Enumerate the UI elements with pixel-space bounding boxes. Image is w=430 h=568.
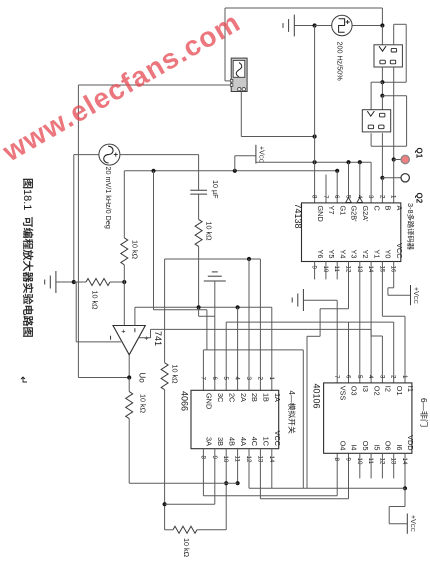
wire 4C down [248, 449, 250, 489]
wire C1 to R2 [198, 194, 200, 219]
svg-text:40106: 40106 [312, 384, 322, 409]
svg-text:1: 1 [390, 195, 397, 199]
ground VSS [302, 289, 304, 311]
svg-text:741: 741 [153, 331, 163, 346]
svg-text:4066: 4066 [180, 391, 190, 411]
junction Q1 [392, 157, 396, 161]
wire Y0 right [382, 315, 405, 317]
wire to Uo node [78, 377, 127, 379]
wire to 2B [248, 259, 250, 390]
oscilloscope XSC1 [230, 58, 247, 91]
wire rail to +in [110, 281, 124, 283]
svg-text:+: + [121, 327, 126, 336]
svg-text:I1: I1 [406, 386, 415, 392]
svg-text:Y2: Y2 [361, 250, 370, 259]
wire rail [74, 281, 86, 283]
wire to G2B pin [348, 162, 350, 197]
svg-text:Y7: Y7 [327, 206, 336, 215]
label 3-8 decoder [406, 203, 415, 250]
svg-text:G2B': G2B' [350, 206, 359, 223]
wire to clock source [315, 25, 332, 27]
svg-text:1C: 1C [262, 437, 271, 446]
svg-text:Y0: Y0 [384, 250, 393, 259]
wire Y3 left2 [307, 335, 320, 337]
junction -in 2A [236, 305, 240, 309]
wire pin9 stub [314, 262, 316, 280]
wire 40106 pin12 stub [381, 453, 383, 478]
svg-text:10 µF: 10 µF [211, 180, 220, 199]
svg-text:2: 2 [256, 377, 263, 381]
svg-text:4—: 4— [287, 391, 296, 403]
wire pin16 jog2 [387, 288, 389, 296]
junction Q2 [380, 176, 384, 180]
IC U1 74138 [302, 203, 401, 262]
wire Y1 to I2 [381, 336, 383, 383]
wire top corner down [381, 8, 383, 26]
svg-text:VCC: VCC [395, 243, 404, 258]
wire 40106 pin10 stub [359, 453, 361, 478]
svg-text:GND: GND [316, 206, 325, 222]
wire scope B left [78, 84, 231, 86]
wire ladder down [164, 259, 166, 363]
wire +Vcc line down to R4 [123, 171, 125, 238]
wire left down to scope A [224, 8, 226, 81]
wire to +Vcc bottom [404, 488, 406, 506]
resistor R2 10k [195, 219, 202, 246]
wire under J2 [371, 145, 407, 147]
clock source V1 200Hz [332, 15, 352, 35]
wire left down to rail [73, 155, 75, 282]
wire Y2 to I3 [359, 262, 361, 383]
wire 1C down [259, 449, 261, 499]
connector Q1 [401, 155, 409, 163]
svg-text:O2: O2 [372, 386, 381, 396]
junction 4A [236, 481, 240, 485]
svg-text:9: 9 [345, 458, 352, 462]
wire gnd bus [256, 161, 371, 163]
ground left [55, 271, 57, 293]
svg-text:4: 4 [234, 377, 241, 381]
wire pin16 down [393, 262, 395, 288]
svg-text:8: 8 [333, 458, 340, 462]
wire Y3 down [348, 262, 350, 309]
junction bias-vcc [233, 169, 237, 173]
wire jog d [388, 507, 390, 524]
wire R2 down to inv node [198, 246, 200, 307]
wire to G2A pin [359, 162, 361, 197]
wire pin10 stub [325, 262, 327, 280]
svg-text:+VCC: +VCC [409, 515, 416, 532]
svg-text:3C: 3C [216, 393, 225, 402]
wire to 2A [237, 307, 239, 390]
wire to bar [389, 523, 407, 525]
svg-text:74138: 74138 [293, 204, 303, 229]
wire V+ stub [139, 337, 151, 339]
wire +Vcc stub h [235, 155, 256, 157]
junction source-switch [380, 23, 384, 27]
wire 153 down [153, 171, 155, 310]
wire V+ up [150, 329, 152, 337]
wire O1 to 2C [226, 321, 394, 323]
op-amp U2 741 [113, 326, 145, 355]
svg-text:+VCC: +VCC [258, 146, 265, 163]
junction Uo [127, 375, 131, 379]
wire gnd stem [56, 281, 74, 283]
svg-text:1: 1 [401, 375, 408, 379]
wire to switch J1 [381, 26, 383, 45]
wire -in up [134, 307, 136, 325]
caption [21, 179, 33, 337]
svg-text:6: 6 [211, 377, 218, 381]
wire 153 right [154, 309, 207, 311]
wire 2C down [225, 322, 227, 390]
wire gnd to 3C [214, 281, 216, 390]
wire bottom right [197, 529, 226, 531]
wire R6 down [128, 419, 130, 484]
wire to O2 [370, 329, 372, 383]
ground top [293, 15, 295, 37]
wire -in net [135, 306, 272, 308]
svg-text:O1: O1 [395, 386, 404, 396]
wire node B to J2 [381, 96, 383, 110]
svg-text:5: 5 [345, 195, 352, 199]
capacitor C1 10uF [190, 189, 207, 191]
wire bus to pin3 C [370, 162, 372, 203]
switch J1 [374, 45, 402, 67]
svg-text:+VCC: +VCC [412, 287, 419, 304]
svg-text:10 kΩ: 10 kΩ [205, 222, 214, 242]
svg-text:3: 3 [378, 375, 385, 379]
IC U3 4066 [191, 390, 279, 448]
arrow G2B [346, 198, 352, 203]
junction bus-p5 [346, 160, 350, 164]
wire 4066 GND stub [202, 350, 204, 390]
wire Q2 to 74138 pin2 [381, 178, 383, 203]
svg-text:I6: I6 [395, 444, 404, 450]
svg-text:3A: 3A [205, 437, 214, 446]
junction 4B [224, 481, 228, 485]
connector Q2 [401, 174, 409, 182]
svg-text:7: 7 [322, 195, 329, 199]
wire VDD down [404, 453, 406, 488]
svg-text:Y5: Y5 [327, 250, 336, 259]
junction rail-gnd [72, 280, 76, 284]
wire gnd vertical to pin8 [314, 26, 316, 203]
wire pin16 to +Vcc [388, 294, 411, 296]
wire I4 up [348, 453, 350, 499]
svg-text:10 kΩ: 10 kΩ [91, 291, 100, 311]
junction G1 [335, 169, 339, 173]
wire O4 up [336, 453, 338, 496]
wire 4066 GND right [203, 349, 303, 351]
svg-text:O6: O6 [384, 441, 393, 451]
wire J1 pin up [393, 24, 395, 45]
wire 3B down [214, 449, 216, 505]
power +Vcc bottom [406, 514, 408, 534]
wire Y1 right [371, 335, 382, 337]
resistor R5 10k [161, 363, 168, 390]
svg-text:10 kΩ: 10 kΩ [182, 538, 191, 558]
svg-text:VSS: VSS [338, 386, 347, 401]
wire J1 to Q1 [393, 67, 395, 160]
junction bus-gnd [313, 160, 317, 164]
svg-text:O4: O4 [338, 441, 347, 451]
svg-text:3: 3 [367, 195, 374, 199]
svg-text:G1: G1 [338, 206, 347, 216]
power +Vcc right [410, 285, 412, 305]
svg-text:I3: I3 [361, 386, 370, 392]
svg-text:5: 5 [356, 375, 363, 379]
wire 153 to gnd line [206, 310, 208, 350]
wire 40106 pin13 stub [393, 453, 395, 478]
svg-text:8: 8 [311, 195, 318, 199]
wire GND down between chips [302, 350, 304, 488]
resistor R4 10k [121, 238, 128, 265]
svg-text:3B: 3B [216, 437, 225, 446]
svg-text:Y3: Y3 [350, 250, 359, 259]
wire 40106 pin11 stub [370, 453, 372, 478]
svg-text:6—: 6— [419, 398, 428, 412]
wire down to C1 [198, 155, 200, 191]
wire J2 to Q2 [381, 133, 383, 178]
wire 3A to O4 [203, 495, 337, 497]
wire around J1 right [405, 24, 407, 82]
svg-text:3: 3 [245, 377, 252, 381]
wire VSS down [336, 300, 338, 383]
wire node A left [371, 81, 382, 83]
wire to node A [382, 81, 406, 83]
svg-text:20 mV/1 kHz/0 Deg: 20 mV/1 kHz/0 Deg [104, 167, 113, 229]
wire J1 bottom pin [381, 67, 383, 82]
svg-text:10 kΩ: 10 kΩ [131, 240, 140, 260]
svg-text:1: 1 [268, 377, 275, 381]
junction node A [380, 80, 384, 84]
svg-text:2B: 2B [250, 393, 259, 402]
svg-text:6: 6 [333, 195, 340, 199]
wire long vertical to Uo [77, 85, 79, 378]
svg-text:C: C [372, 206, 381, 211]
wire VCC down [271, 449, 273, 489]
wire +Vcc stub v [234, 156, 236, 171]
wire source left [74, 154, 99, 156]
svg-text:Y4: Y4 [338, 250, 347, 259]
wire inv node jog down [198, 307, 200, 316]
wire bias net horizontal [124, 170, 337, 172]
wire Uo to R6 [128, 378, 130, 392]
wire output [128, 355, 130, 378]
wire V- stub [76, 341, 121, 343]
wire node A to node B [381, 82, 383, 96]
wire pin11 stub [336, 262, 338, 280]
svg-text:6: 6 [345, 375, 352, 379]
wire gnd to VSS h [303, 299, 337, 301]
wire Uo feedback line [129, 482, 237, 484]
wire 4A down [237, 449, 239, 484]
svg-text:O3: O3 [350, 386, 359, 396]
wire ladder top [165, 258, 261, 260]
wire pin16 jog [388, 287, 394, 289]
wire inv node jog right [199, 315, 215, 317]
junction bias-153 [151, 169, 155, 173]
wire source to switch node [352, 25, 382, 27]
svg-text:I2: I2 [384, 386, 393, 392]
svg-text:1B: 1B [262, 393, 271, 402]
arrow G2A [357, 198, 363, 203]
IC U4 40106 [324, 383, 412, 453]
wire G1 pin6 [336, 171, 338, 203]
svg-text:A: A [395, 206, 404, 211]
svg-text:I4: I4 [350, 444, 359, 450]
wire scope ground down [240, 92, 242, 137]
svg-text:2: 2 [390, 375, 397, 379]
svg-text:O5: O5 [361, 441, 370, 451]
wire to Q1 connector [394, 159, 401, 161]
wire bottom left [165, 529, 173, 531]
svg-text:I5: I5 [372, 444, 381, 450]
wire Y0 to I1 [404, 316, 406, 383]
wire rail to V- [75, 282, 77, 342]
wire Y0 down [381, 262, 383, 317]
svg-text:2A: 2A [239, 393, 248, 402]
svg-text:4A: 4A [239, 437, 248, 446]
svg-text:4C: 4C [250, 437, 259, 446]
svg-text:2C: 2C [227, 393, 236, 402]
svg-text:1A: 1A [273, 393, 282, 402]
resistor R6 10k [126, 392, 133, 419]
junction 3B tap [163, 502, 167, 506]
svg-text:GND: GND [205, 393, 214, 409]
svg-text:Uo: Uo [138, 373, 147, 384]
wire VDD rail [249, 487, 405, 489]
wire pin7 Y7 stub [325, 175, 327, 203]
wire Y3 left [320, 308, 348, 310]
junction +in rail [122, 280, 126, 284]
wire Q1 to 74138 pin1 [393, 160, 395, 203]
svg-text:3-8: 3-8 [406, 203, 415, 214]
svg-text:2: 2 [378, 195, 385, 199]
power +Vcc mid [255, 145, 257, 164]
wire 3B to ladder [165, 503, 215, 505]
switch J2 [362, 110, 390, 132]
svg-text:VCC: VCC [273, 431, 282, 446]
sine source V2 20mV [99, 144, 120, 165]
svg-text:18.1: 18.1 [21, 189, 33, 210]
wire node B right [382, 95, 406, 97]
resistor R3 10k [86, 279, 110, 286]
junction -in C1 chain [197, 305, 201, 309]
wire Y3 long down [306, 336, 308, 488]
wire to 1B [259, 259, 261, 390]
junction node B [380, 94, 384, 98]
wire around J1 top [394, 23, 407, 25]
wire O1 up [393, 322, 395, 383]
svg-text:G2A': G2A' [361, 206, 370, 223]
label hex inverter [419, 398, 428, 426]
wire ladder down2 [164, 390, 166, 530]
wire to 1A [271, 307, 273, 390]
svg-text:Y6: Y6 [316, 250, 325, 259]
junction top gnd node [313, 23, 317, 27]
wire 4B down [225, 449, 227, 484]
ground 3C inverted [204, 280, 226, 282]
wire around J2 right [406, 96, 408, 147]
svg-text:VDD: VDD [406, 435, 415, 450]
wire 1C to I4 [260, 498, 348, 500]
svg-text:5: 5 [222, 377, 229, 381]
wire Y1 down [370, 262, 372, 337]
caption return mark [21, 377, 27, 382]
wire R4 to op-amp + [123, 265, 125, 326]
wire source right [120, 154, 199, 156]
svg-text:4: 4 [367, 375, 374, 379]
resistor R7 10k [173, 526, 197, 533]
wire to Q2 connector [382, 177, 401, 179]
junction VDD [403, 486, 407, 490]
svg-text:200 Hz/50%: 200 Hz/50% [336, 42, 345, 82]
svg-text:7: 7 [333, 375, 340, 379]
wire to J2 pin [370, 82, 372, 110]
svg-text:Q1: Q1 [415, 148, 424, 159]
wire O3 stub [348, 322, 350, 383]
label 4-analog-switch [287, 391, 296, 434]
wire jog l [389, 506, 405, 508]
wire Y3 down2 [319, 309, 321, 337]
junction 2B [247, 257, 251, 261]
wire top horizontal [225, 7, 382, 9]
junction scope-gnd [313, 134, 317, 138]
wire up to 4B line [225, 483, 227, 530]
svg-text:4: 4 [356, 195, 363, 199]
wire 3A down [202, 449, 204, 496]
wire scope ground to GND net [241, 136, 314, 138]
wire ground stem to node [294, 25, 314, 27]
svg-text:10 kΩ: 10 kΩ [139, 394, 148, 414]
svg-text:10 kΩ: 10 kΩ [171, 365, 180, 385]
junction bus-p4 [358, 160, 362, 164]
svg-text:7: 7 [199, 377, 206, 381]
wire V+ net long [151, 328, 372, 330]
svg-text:Y1: Y1 [372, 250, 381, 259]
svg-text:B: B [384, 206, 393, 211]
svg-text:4B: 4B [227, 437, 236, 446]
wire into scope terminal A [225, 80, 231, 82]
wire J2 bottom-left pin [370, 133, 372, 146]
